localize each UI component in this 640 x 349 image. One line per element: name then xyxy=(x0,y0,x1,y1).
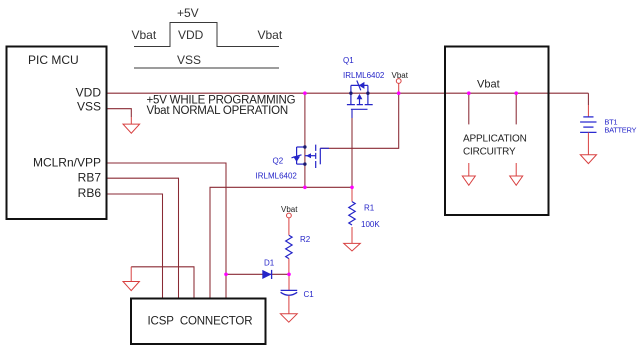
wire D1 branch from MCLR line to R2/C1 node xyxy=(226,273,289,275)
wire application circuitry right ground drop xyxy=(515,93,517,124)
capacitor C1 bottom lead xyxy=(288,296,290,314)
wire Q2 drain-source vertical line xyxy=(304,93,306,187)
transistor Q2 gate lead blue segment xyxy=(320,147,329,149)
transistor Q2 bulk arrow xyxy=(306,153,311,158)
svg-text:MCLRn/VPP: MCLRn/VPP xyxy=(33,156,101,170)
svg-text:C1: C1 xyxy=(304,290,315,299)
svg-text:VSS: VSS xyxy=(177,53,201,67)
junction dot R2/D1/C1 node xyxy=(287,273,291,277)
transistor Q2 drain pin dot xyxy=(303,145,306,148)
svg-text:RB6: RB6 xyxy=(78,186,102,200)
ICSP connector box xyxy=(131,299,266,345)
power node Vbat above R2: lead xyxy=(288,218,290,235)
battery BT1 plates xyxy=(580,117,596,132)
svg-text:Q1: Q1 xyxy=(343,56,354,65)
capacitor C1 top plate xyxy=(281,289,298,291)
svg-text:Q2: Q2 xyxy=(273,157,284,166)
wire RB6 pin to ICSP pin 1 xyxy=(107,194,163,298)
diode D1 anode-cathode wire xyxy=(262,273,271,275)
wire rail corner down to battery xyxy=(587,93,589,105)
transistor Q2 body (P-MOSFET, vertical) xyxy=(292,145,321,168)
wire Q1 gate line down to junction xyxy=(351,109,353,187)
svg-text:RB7: RB7 xyxy=(78,171,102,185)
svg-text:VSS: VSS xyxy=(77,100,101,114)
svg-text:IRLML6402: IRLML6402 xyxy=(256,172,298,181)
transistor Q1 source pin dot xyxy=(366,92,369,95)
svg-text:CIRCUITRY: CIRCUITRY xyxy=(463,146,516,157)
svg-text:PIC MCU: PIC MCU xyxy=(28,53,79,67)
wire VDD rail from PIC to battery corner xyxy=(107,92,588,94)
diode D1 cathode bar xyxy=(271,270,273,279)
capacitor C1 curved plate xyxy=(281,292,298,295)
wire RB7 pin to ICSP pin 2 xyxy=(107,178,179,297)
ground VSS xyxy=(123,124,140,133)
ground app left stem xyxy=(468,163,470,176)
ground C1 xyxy=(280,314,297,322)
resistor R2 xyxy=(286,235,292,258)
svg-text:VDD: VDD xyxy=(76,86,102,100)
transistor Q1 body-diode arrowhead xyxy=(359,82,365,89)
svg-text:D1: D1 xyxy=(264,259,275,268)
transistor Q2 body-diode arrowhead xyxy=(293,156,300,162)
junction dot rail/app left drop xyxy=(467,91,471,95)
resistor R2 bottom lead xyxy=(288,259,290,275)
resistor R1 xyxy=(349,202,355,225)
ground ICSP xyxy=(123,282,139,291)
power node Vbat near Q1: circle xyxy=(396,79,401,84)
ground R1 xyxy=(344,243,361,251)
svg-text:Vbat: Vbat xyxy=(132,28,157,42)
ground VSS stem xyxy=(130,117,132,124)
junction dot Q1 gate/R1/VPP line xyxy=(350,186,354,190)
transistor Q1 drain pin dot xyxy=(349,92,352,95)
ground BT1 xyxy=(580,155,596,164)
svg-text:100K: 100K xyxy=(361,220,380,229)
waveform VDD pulse trace xyxy=(134,23,279,47)
power node Vbat near Q1: lead xyxy=(398,83,400,93)
svg-text:Vbat: Vbat xyxy=(392,71,409,80)
capacitor C1 top lead xyxy=(288,274,290,290)
svg-text:APPLICATION: APPLICATION xyxy=(463,134,527,145)
power node Vbat above R2: circle xyxy=(287,213,292,218)
application circuitry box xyxy=(445,47,549,216)
svg-text:R2: R2 xyxy=(300,235,311,244)
junction dot rail/Q2 drain xyxy=(303,91,307,95)
transistor Q2 source pin dot xyxy=(303,162,306,165)
transistor Q1 gate lead blue segment xyxy=(351,109,353,118)
junction dot Q2 source/VPP line xyxy=(303,186,307,190)
transistor Q1 body (P-MOSFET, horizontal) xyxy=(347,81,373,110)
wire application circuitry left ground drop xyxy=(468,93,470,124)
svg-text:VDD: VDD xyxy=(178,28,204,42)
wire Q2 gate to Vbat rail junction xyxy=(320,93,398,148)
svg-text:R1: R1 xyxy=(364,204,375,213)
waveform VSS reference line xyxy=(134,67,279,69)
svg-text:Vbat: Vbat xyxy=(258,28,283,42)
svg-text:Vbat NORMAL OPERATION: Vbat NORMAL OPERATION xyxy=(147,105,289,117)
ground app right stem xyxy=(515,163,517,176)
wire VSS pin to ground xyxy=(107,109,131,117)
wire VPP switch line from ICSP pin 4 to R1/Q1-gate junction xyxy=(210,187,352,297)
svg-text:Vbat: Vbat xyxy=(477,79,500,91)
svg-text:IRLML6402: IRLML6402 xyxy=(343,71,385,80)
svg-text:BATTERY: BATTERY xyxy=(604,125,636,134)
svg-text:ICSP CONNECTOR: ICSP CONNECTOR xyxy=(148,316,253,328)
battery BT1 top lead xyxy=(587,105,589,117)
resistor R1 top lead xyxy=(351,187,353,201)
ground app right xyxy=(510,176,523,185)
ground ICSP stem xyxy=(130,267,132,282)
transistor Q1 bulk arrow xyxy=(357,94,363,99)
resistor R1 bottom lead xyxy=(351,227,353,243)
junction dot rail/app right drop xyxy=(514,91,518,95)
junction dot MCLR line/D1 branch xyxy=(224,273,228,277)
wire MCLRn/VPP pin to ICSP pin 5 xyxy=(107,163,226,298)
battery BT1 bottom lead xyxy=(587,132,589,154)
svg-text:Vbat: Vbat xyxy=(281,205,298,214)
diode D1 triangle xyxy=(262,270,271,279)
svg-text:+5V: +5V xyxy=(177,6,199,20)
ground app left xyxy=(462,176,475,185)
junction dot rail/Vbat node xyxy=(397,91,401,95)
PIC MCU box xyxy=(7,47,107,220)
wire ICSP ground line xyxy=(131,267,194,298)
